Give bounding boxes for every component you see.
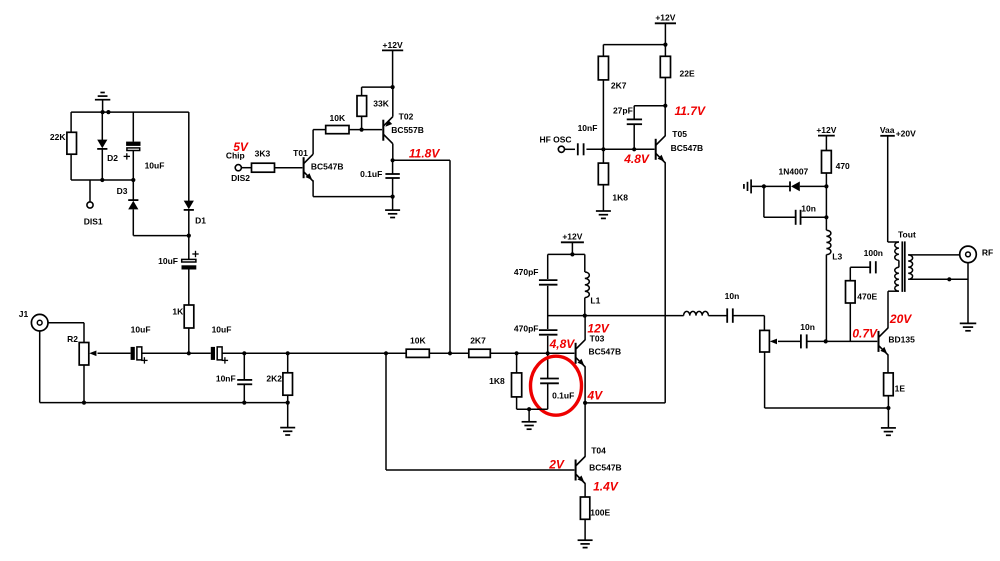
svg-text:T03: T03 (590, 334, 605, 344)
label 100E (590, 507, 610, 517)
capacitor 10uF (input coupling 2) (211, 347, 228, 364)
svg-text:470pF: 470pF (514, 267, 539, 277)
wire BD135 collector up (887, 291, 889, 328)
wire L3 top lead (825, 217, 827, 230)
label 1E (895, 384, 906, 394)
label 12V (red) (587, 322, 609, 336)
label T02 (399, 112, 414, 122)
svg-text:L3: L3 (832, 252, 842, 262)
wire 22E bottom lead (664, 78, 666, 106)
wire 11.8V feed (393, 160, 450, 353)
node dot 33K bottom (360, 128, 364, 132)
wire choke to 10n (708, 315, 727, 317)
label 3K3 (255, 149, 271, 159)
svg-text:Chip: Chip (226, 150, 245, 160)
svg-text:10K: 10K (330, 113, 346, 123)
wire emitter return rail (765, 407, 889, 409)
label Vaa (880, 125, 895, 135)
node dot T02 emitter rail (391, 85, 395, 89)
terminal DIS2 (235, 165, 241, 171)
svg-text:Vaa: Vaa (880, 125, 895, 135)
wire 10uF cap bottom lead (132, 151, 134, 180)
wire T01/T02 ground rail (313, 196, 393, 198)
svg-text:BC557B: BC557B (391, 125, 424, 135)
wire secondary top to RF (908, 254, 960, 256)
svg-text:R2: R2 (67, 334, 78, 344)
svg-text:470pF: 470pF (514, 324, 539, 334)
wire between 470pF caps (547, 286, 549, 329)
resistor 1K8 (T03) (512, 373, 522, 397)
wire 12V tank output line (548, 315, 684, 317)
wire bottom rail of discharge block (71, 179, 133, 181)
wire 100n left leg (850, 267, 870, 280)
label BD135 (888, 334, 915, 344)
node dot 2K7/1K8 (601, 147, 605, 151)
wire T01 collector (313, 130, 326, 155)
wire 2K7 bottom lead (602, 80, 604, 149)
resistor 1K (184, 305, 194, 328)
svg-text:HF OSC: HF OSC (539, 135, 571, 145)
label 470pF (bottom) (514, 324, 539, 334)
wire to T05 base (634, 148, 654, 150)
transistor BD135 (879, 328, 889, 355)
wire 27pF tee (634, 106, 665, 119)
label 2K7 (T05 bias) (611, 80, 627, 90)
power +12V (T02) (382, 40, 403, 87)
label D1 (195, 215, 206, 225)
svg-text:BC547B: BC547B (311, 161, 344, 171)
ground (emitter bypass) (522, 409, 537, 429)
node dot ground rail (391, 195, 395, 199)
svg-text:J1: J1 (19, 309, 29, 319)
capacitor 10nF (HF OSC coupling) (578, 143, 584, 155)
wire main line seg2 (222, 352, 574, 354)
wire 10nF branch top (243, 353, 245, 379)
wire pot bottom (764, 352, 766, 408)
resistor 22K (67, 132, 77, 154)
wire 10nF branch bottom (243, 385, 245, 403)
label 5V (red) (233, 140, 249, 154)
resistor 2K7 (T05 bias) (598, 56, 608, 80)
wire L1 top lead (584, 254, 586, 272)
label 22E (680, 68, 695, 78)
wire R2 wiper arrow (89, 351, 130, 357)
transformer core (902, 241, 905, 292)
label 27pF (613, 106, 633, 116)
diode D1 (184, 201, 194, 210)
label 470pF (top) (514, 267, 539, 277)
label 4V (red) (587, 389, 604, 403)
svg-text:1K: 1K (172, 306, 184, 316)
label 0.1uF (T02) (360, 169, 382, 179)
potentiometer (drive level) (760, 330, 770, 352)
wire T05 emitter down (664, 162, 666, 403)
capacitor 10n (decoupling) (796, 210, 801, 225)
svg-text:T05: T05 (672, 129, 687, 139)
wire Vaa down (888, 136, 899, 242)
label 10uF (discharge block) (145, 160, 165, 170)
label J1 (19, 309, 29, 319)
node dot +12V rail T05 (663, 43, 667, 47)
resistor 33K (357, 96, 367, 117)
wire 0.1uF branch bottom (547, 384, 549, 409)
label T04 (591, 446, 606, 456)
label 10nF (216, 374, 236, 384)
label 11.8V (red) (409, 147, 440, 161)
wire 2K2 branch top (287, 353, 289, 373)
capacitor 470pF (top) (539, 280, 558, 285)
connector J1 (31, 314, 48, 331)
wire emitter-bypass ground rail (517, 408, 548, 410)
node dot D1 bottom (187, 234, 191, 238)
node dots on ground rail (82, 401, 290, 405)
wire 27pF bottom lead (633, 125, 635, 150)
wire primary tap segment (898, 260, 900, 267)
svg-text:2K7: 2K7 (470, 335, 486, 345)
svg-text:+20V: +20V (896, 128, 916, 138)
svg-text:0.1uF: 0.1uF (552, 390, 574, 400)
capacitor 0.1uF (T02) (385, 174, 399, 178)
label 2V (red) (548, 458, 565, 472)
capacitor 10n (tank output) (727, 308, 733, 322)
capacitor 10uF (input coupling 1) (131, 347, 148, 364)
svg-text:Tout: Tout (898, 229, 916, 239)
label 10nF (HF OSC coupling) (578, 123, 598, 133)
svg-text:10nF: 10nF (216, 374, 236, 384)
label 2K2 (266, 373, 282, 383)
inductor L1 (585, 272, 590, 298)
wire J1 to R2 top (48, 323, 84, 343)
wire D1 cathode lead (188, 210, 190, 236)
wire DIS2 to 3K3 (241, 167, 251, 169)
wire 1K8 branch bottom (516, 397, 518, 409)
wire J1 shield down (39, 331, 41, 403)
node dot T05 collector (663, 104, 667, 108)
resistor 100E (580, 497, 589, 519)
wire D3 top lead (132, 180, 134, 201)
svg-text:0.7V: 0.7V (852, 326, 878, 340)
svg-text:+12V: +12V (562, 232, 582, 242)
svg-text:T01: T01 (293, 148, 308, 158)
wire 0.1uF bottom lead (392, 178, 394, 196)
svg-text:10uF: 10uF (158, 256, 178, 266)
wire D3 bottom lead (132, 209, 134, 235)
svg-text:D3: D3 (117, 186, 128, 196)
transformer Tout secondary (908, 255, 912, 279)
resistor 470E (846, 281, 856, 303)
label HF OSC (539, 135, 571, 145)
wire top rail of discharge block (71, 111, 189, 113)
wire T04 emitter down (584, 483, 586, 497)
terminal HF OSC (558, 146, 564, 152)
wire 10n to L3 node (801, 216, 827, 218)
svg-text:10K: 10K (410, 335, 426, 345)
node dots on main line (242, 351, 550, 355)
label 100n (864, 248, 883, 258)
wire 10n to pot (733, 316, 765, 331)
wire T05 collector up (664, 106, 666, 137)
wire T03 collector up (584, 316, 586, 341)
label 2K7 (main line) (470, 335, 486, 345)
label 470 (836, 161, 850, 171)
svg-text:D2: D2 (107, 153, 118, 163)
label D3 (117, 186, 128, 196)
wire T04 collector up (584, 403, 586, 457)
power bar Vaa (880, 135, 895, 137)
wire secondary bottom (908, 278, 968, 280)
wire 1K8 branch top (516, 353, 518, 373)
wire 1K8 top lead (602, 149, 604, 163)
resistor 1K8 (T05) (598, 163, 608, 185)
label 10K (main line) (410, 335, 426, 345)
capacitor 0.1uF (emitter bypass) (540, 379, 559, 384)
wire 1E bottom lead (887, 396, 889, 408)
ground (T01/T02) (385, 197, 400, 218)
wire main line seg1 (142, 352, 211, 354)
label BC547B (T04) (589, 463, 622, 473)
wire 470E bottom lead (849, 303, 851, 341)
inductor (output coupling choke) (684, 311, 709, 315)
wire 10n branch (764, 186, 796, 217)
svg-text:BC547B: BC547B (671, 143, 704, 153)
potentiometer R2 (79, 343, 89, 366)
transformer Tout primary lower (895, 267, 899, 291)
capacitor 10nF (237, 380, 252, 384)
label 1K8 (T05) (612, 193, 628, 203)
wire 0.1uF branch top (547, 353, 549, 378)
svg-text:+12V: +12V (383, 40, 403, 50)
wire HF OSC to 10nF (565, 148, 576, 150)
label 10uF (input coupling 2) (212, 324, 232, 334)
label BC547B (T05) (671, 143, 704, 153)
wire T01 emitter down (312, 180, 314, 196)
label 1K8 (T03) (489, 376, 505, 386)
capacitor 10uF (series) (182, 251, 199, 270)
svg-text:100E: 100E (590, 507, 610, 517)
node dot bypass ground (527, 407, 531, 411)
power +12V (tank) (561, 232, 584, 255)
resistor 10K (T01-T02) (326, 126, 349, 134)
svg-text:10uF: 10uF (131, 324, 151, 334)
label 33K (373, 99, 389, 109)
label T05 (672, 129, 687, 139)
svg-text:+12V: +12V (816, 125, 836, 135)
wire D2 cathode lead (101, 149, 103, 180)
label 10n (decoupling) (801, 204, 816, 214)
svg-text:10nF: 10nF (578, 123, 598, 133)
label DIS2 (231, 173, 250, 183)
label Tout (898, 229, 916, 239)
capacitor 27pF (627, 119, 642, 124)
wire to series 10uF cap (188, 236, 190, 260)
ground (T05 1K8) (596, 185, 611, 219)
svg-text:1.4V: 1.4V (593, 479, 619, 493)
label L1 (590, 296, 600, 306)
transistor T03 (576, 340, 586, 367)
svg-text:+12V: +12V (655, 13, 675, 23)
power +12V (470) (816, 125, 836, 151)
wire ground to diode (751, 185, 790, 187)
svg-text:BD135: BD135 (888, 334, 915, 344)
wire base line to 27pF node (603, 148, 634, 150)
capacitor 10n (base coupling) (801, 334, 807, 348)
diode D2 (97, 140, 107, 149)
ground (sideways, 1N4007) (744, 179, 751, 193)
capacitor 10uF (discharge block) (124, 142, 141, 160)
wire 470pF chain top (547, 254, 549, 279)
node dots on bottom rail (100, 178, 135, 182)
svg-text:3K3: 3K3 (255, 149, 271, 159)
resistor 470 (822, 151, 832, 174)
ground (RF) (960, 263, 977, 331)
capacitor 100n (870, 261, 876, 273)
svg-text:2V: 2V (548, 458, 565, 472)
label 0.7V (red) (852, 326, 878, 340)
node dot 11.8V (391, 158, 395, 162)
svg-text:470E: 470E (857, 291, 877, 301)
wire ground rail bottom-left (40, 402, 288, 404)
node junction dots on top rail (101, 110, 111, 114)
label D2 (107, 153, 118, 163)
wire series cap to 1K (188, 270, 190, 306)
label RF (982, 247, 993, 257)
node dot series branch (187, 351, 191, 355)
wire BD135 emitter down (887, 355, 889, 373)
svg-text:11.7V: 11.7V (675, 104, 706, 118)
wire D3-D1 bottom link (133, 235, 189, 237)
svg-text:DIS1: DIS1 (84, 217, 103, 227)
resistor 1E (884, 373, 894, 396)
ground (100E) (578, 519, 593, 547)
svg-text:22E: 22E (680, 68, 695, 78)
wire 470 to diode node (825, 173, 827, 217)
node dot emitter return (886, 406, 890, 410)
transistor T04 (576, 457, 586, 484)
terminal DIS1 (87, 202, 93, 208)
wire pot wiper arrow (770, 339, 801, 345)
svg-text:BC547B: BC547B (589, 346, 622, 356)
wire T04 base feed (386, 353, 574, 470)
svg-text:1K8: 1K8 (489, 376, 505, 386)
wire 0.1uF top lead (392, 160, 394, 174)
label 22K (50, 132, 66, 142)
wire R2 bottom (83, 365, 85, 403)
label 4,8V (red, T03) (549, 337, 576, 351)
svg-text:L1: L1 (590, 296, 600, 306)
wire diode to 470 node (800, 185, 827, 187)
wire 2K7 top lead (602, 45, 604, 57)
label T03 (590, 334, 605, 344)
ground below 2K2 (280, 403, 295, 435)
svg-text:100n: 100n (864, 248, 883, 258)
wire T03 emitter down (584, 366, 586, 403)
label BC547B (T03) (589, 346, 622, 356)
node dot 27pF bottom (632, 147, 636, 151)
svg-text:4.8V: 4.8V (623, 152, 650, 166)
wire T02 collector down (392, 144, 394, 161)
wire +12V rail to 2K7 (603, 44, 665, 46)
capacitor 470pF (bottom) (539, 330, 558, 335)
svg-text:4V: 4V (587, 389, 604, 403)
connector RF (960, 246, 977, 263)
wire 33K bottom lead (361, 116, 363, 129)
svg-text:1K8: 1K8 (612, 193, 628, 203)
wire tank top rail (548, 253, 585, 255)
label 20V (red) (889, 312, 912, 326)
svg-text:11.8V: 11.8V (409, 147, 440, 161)
wire 22K bottom lead (70, 154, 72, 180)
label Chip (226, 150, 245, 160)
label 1K (172, 306, 184, 316)
svg-text:10n: 10n (801, 204, 816, 214)
svg-text:33K: 33K (373, 99, 389, 109)
label DIS1 (84, 217, 103, 227)
label BC547B (T01) (311, 161, 344, 171)
wire 10n to BD135 base (807, 340, 878, 342)
ground (BD135) (881, 408, 896, 435)
svg-text:T04: T04 (591, 446, 606, 456)
resistor 2K7 (main line) (469, 349, 491, 357)
label R2 (67, 334, 78, 344)
resistor 2K2 (283, 373, 293, 395)
label 0.1uF (emitter bypass) (552, 390, 574, 400)
node dot tank top (570, 252, 574, 256)
node dot 4V (583, 401, 587, 405)
node dot secondary return (947, 277, 951, 281)
ground (top of discharge block) (95, 93, 110, 113)
label 10n (tank output) (725, 291, 740, 301)
svg-text:T02: T02 (399, 112, 414, 122)
wire L3 bottom lead (825, 255, 827, 342)
wire L1 bottom lead (584, 298, 586, 316)
label 10uF (series) (158, 256, 178, 266)
wire 33K top to +12V rail (362, 87, 393, 96)
power +12V (T05) (655, 13, 676, 45)
wire DIS1 stem (89, 180, 91, 202)
svg-text:2K2: 2K2 (266, 373, 282, 383)
label T01 (293, 148, 308, 158)
svg-text:27pF: 27pF (613, 106, 633, 116)
svg-text:0.1uF: 0.1uF (360, 169, 382, 179)
label 1N4007 (779, 166, 809, 176)
svg-text:22K: 22K (50, 132, 66, 142)
transformer Tout primary upper (895, 242, 899, 260)
label 10K (T01-T02) (330, 113, 346, 123)
diode 1N4007 (790, 181, 800, 191)
wire 3K3 to T01 base (275, 167, 303, 169)
wire 10nF to node (586, 148, 603, 150)
transistor T05 (656, 136, 666, 163)
diode D3 (128, 200, 138, 209)
label 470E (857, 291, 877, 301)
wire 4V link (585, 402, 665, 404)
label 10n (base coupling) (800, 322, 815, 332)
node dot L3 bottom on base line (824, 339, 828, 343)
svg-text:DIS2: DIS2 (231, 173, 250, 183)
transistor T01 (304, 154, 314, 181)
wire 10uF cap top lead (132, 112, 134, 142)
transistor T02 (383, 117, 393, 144)
label BC557B (T02) (391, 125, 424, 135)
node dot L3 top (824, 215, 828, 219)
node dot diode/470 (824, 184, 828, 188)
resistor 22E (660, 56, 670, 77)
inductor L3 (826, 230, 831, 254)
svg-text:4,8V: 4,8V (549, 337, 576, 351)
svg-text:1N4007: 1N4007 (779, 166, 809, 176)
wire 22E top lead (664, 45, 666, 57)
wire 470pF chain bottom (547, 336, 549, 354)
